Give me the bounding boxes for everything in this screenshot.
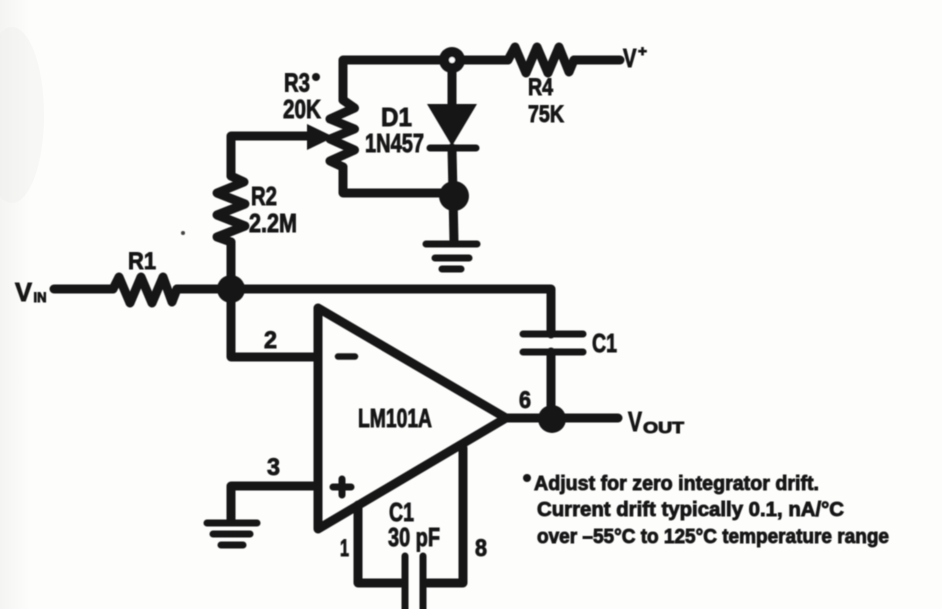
node A junction dot (217, 275, 245, 303)
wire top node to R4 (452, 56, 508, 65)
potentiometer R3 body (330, 100, 355, 167)
svg-text:75K: 75K (528, 101, 565, 128)
node output junction dot (538, 405, 566, 433)
op-amp U1 LM101A triangle (318, 308, 506, 529)
svg-text:LM101A: LM101A (358, 403, 432, 433)
label V+ supply (623, 43, 647, 73)
svg-text:6: 6 (519, 387, 531, 414)
ground at pin 3 (207, 523, 257, 545)
svg-text:Adjust for zero integrator dri: Adjust for zero integrator drift. (534, 473, 819, 495)
wire node A down to pin 2 (231, 289, 318, 357)
wire C1 lower plate to output node (547, 352, 556, 419)
wire pin 8 down and across (427, 448, 463, 583)
op-amp minus sign (338, 353, 355, 360)
wire output to Vout (504, 414, 618, 423)
wire top loop to R3 (343, 60, 452, 100)
svg-text:R4: R4 (528, 74, 554, 101)
svg-text:1: 1 (340, 535, 349, 562)
node top junction dot (439, 47, 465, 73)
wire R1 to node A and on to feedback corner (177, 289, 551, 334)
wire pin 3 to ground (231, 486, 318, 521)
resistor R1 (113, 277, 177, 303)
svg-text:1N457: 1N457 (365, 128, 424, 158)
op-amp plus sign (333, 479, 351, 495)
potentiometer R3 wiper arrowhead (307, 124, 334, 150)
svg-text:R2: R2 (251, 181, 277, 211)
ground below D1 (426, 244, 477, 269)
svg-text:20K: 20K (283, 94, 321, 124)
label Vout (628, 406, 684, 437)
wire R2 top to wiper arm (231, 136, 310, 176)
svg-text:IN: IN (34, 290, 47, 305)
svg-text:V: V (623, 43, 637, 73)
capacitor C1 feedback plates (523, 334, 583, 352)
node D1-anode junction dot (439, 181, 469, 211)
svg-text:V: V (628, 406, 642, 437)
svg-text:V: V (15, 277, 33, 307)
wire Vin to R1 (54, 285, 113, 294)
svg-text:R1: R1 (128, 248, 156, 275)
wire pin 1 down and across (358, 505, 401, 583)
speck (181, 231, 185, 235)
svg-text:over –55°C to 125°C temperatur: over –55°C to 125°C temperature range (537, 526, 889, 548)
wire D1 to lower node and ground (452, 148, 454, 242)
capacitor C1 30pF plates (405, 556, 423, 609)
svg-text:Current drift typically 0.1, n: Current drift typically 0.1, nA/°C (537, 499, 844, 521)
svg-text:30 pF: 30 pF (388, 522, 440, 552)
wire node A up to R2 (227, 242, 236, 289)
svg-text:C1: C1 (592, 328, 617, 358)
svg-text:8: 8 (475, 535, 487, 562)
label R3 with asterisk (284, 68, 320, 98)
svg-text:OUT: OUT (643, 420, 684, 437)
svg-text:2.2M: 2.2M (249, 208, 297, 238)
wire R3 bottom to D1 lower node (343, 167, 454, 193)
svg-text:3: 3 (267, 454, 280, 481)
resistor R2 (217, 176, 245, 242)
svg-text:R3: R3 (284, 68, 310, 98)
label Vin (15, 277, 47, 307)
svg-text:+: + (638, 43, 647, 60)
diode D1 (427, 104, 477, 148)
svg-text:2: 2 (264, 327, 277, 354)
wire R4 to V+ (574, 56, 620, 65)
note line 1 (523, 473, 819, 495)
resistor R4 (508, 47, 574, 73)
wire top node to D1 (448, 60, 457, 104)
